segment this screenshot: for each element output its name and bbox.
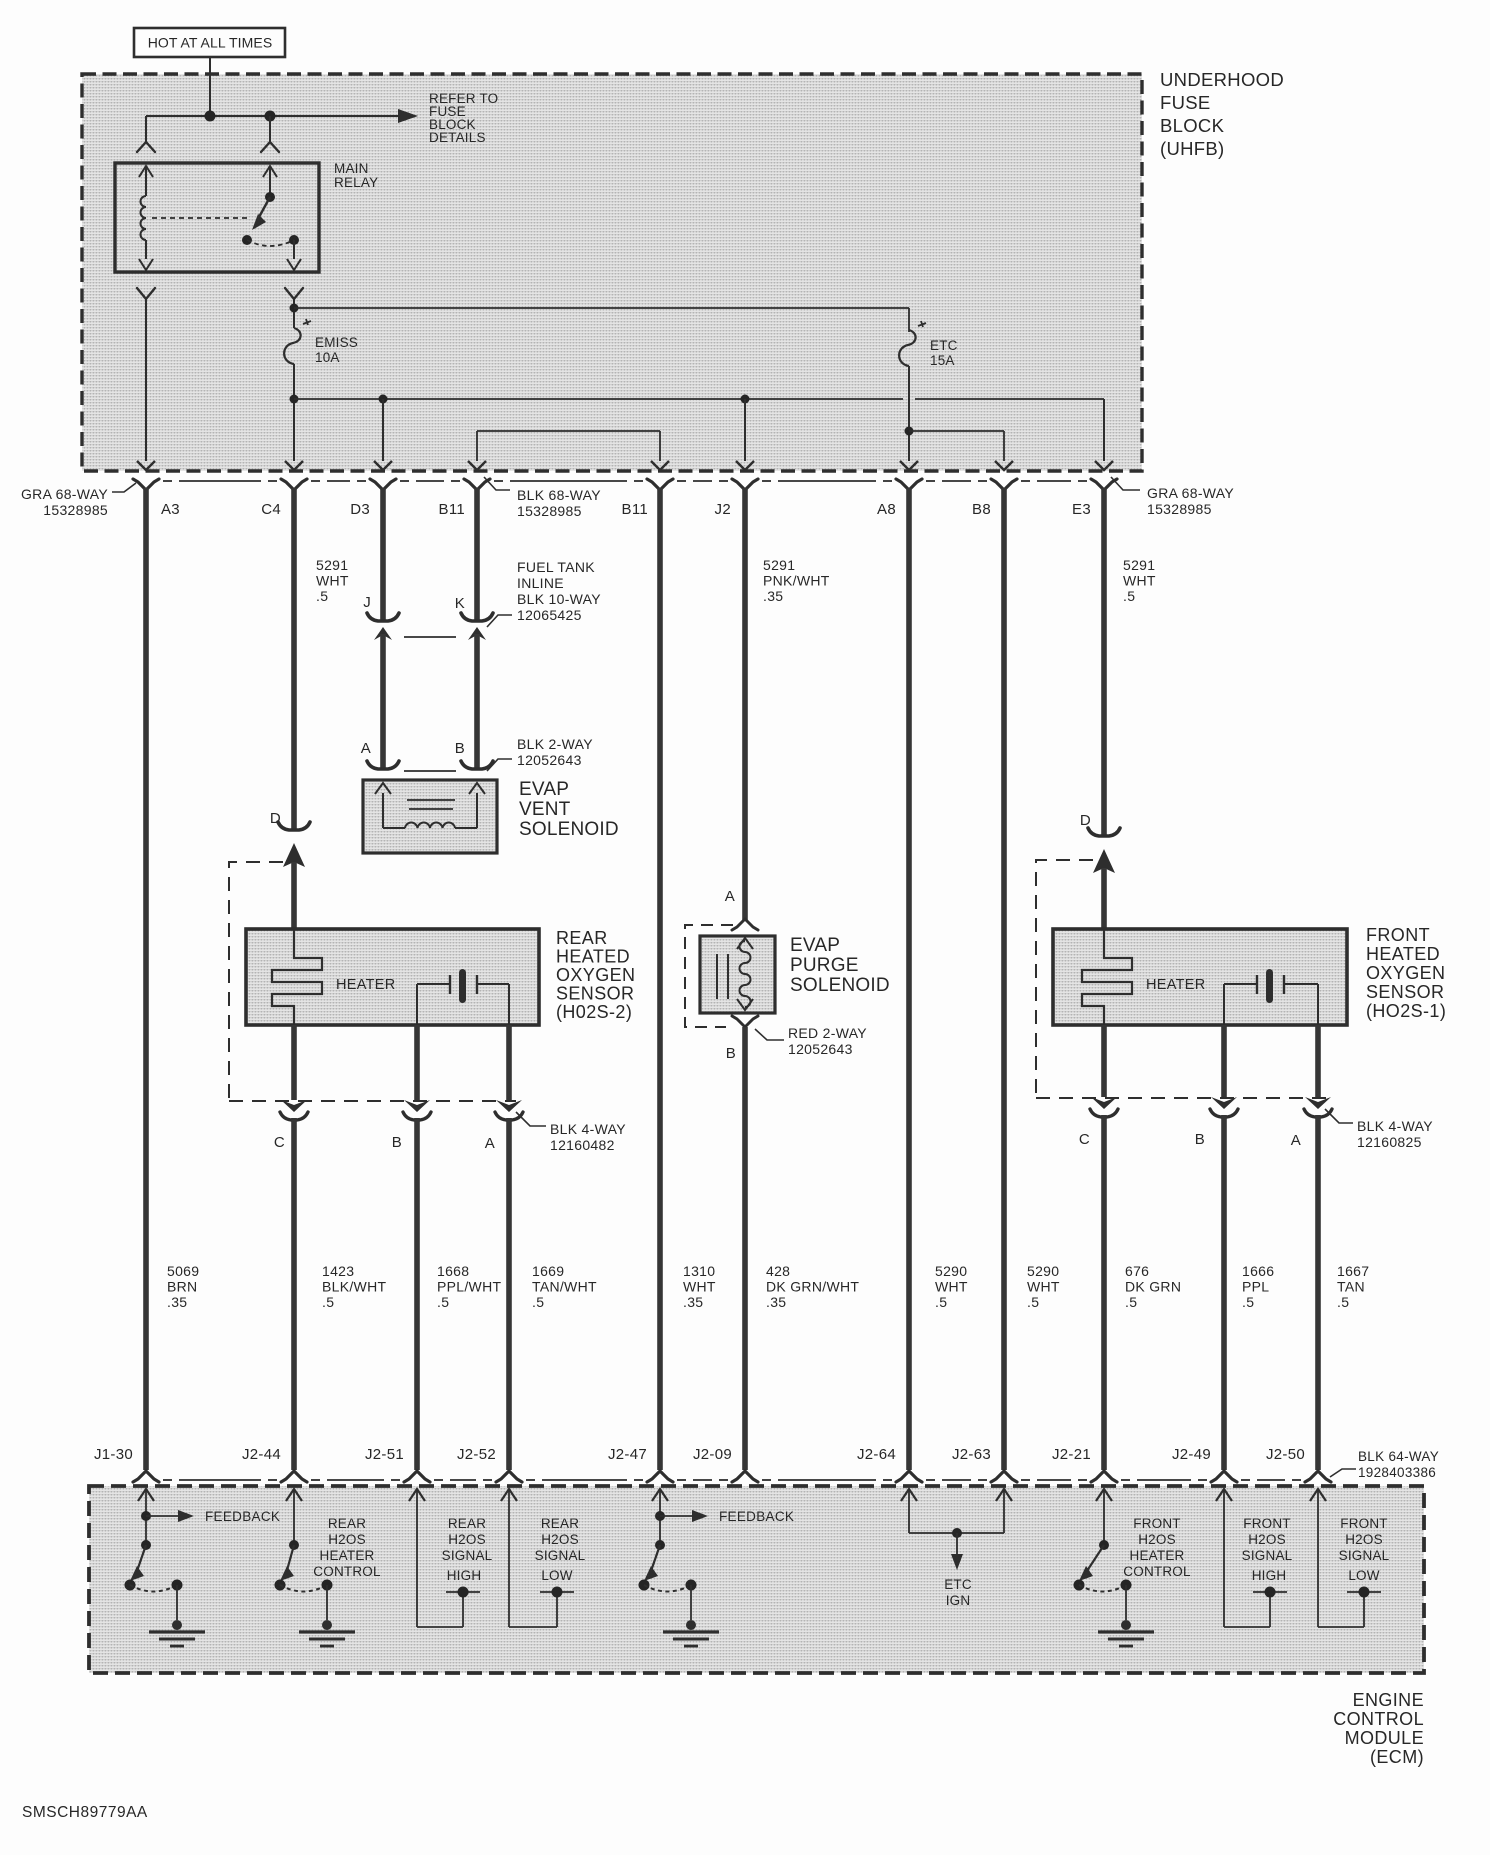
J2-51 rear signal high path: [409, 1489, 480, 1627]
wire front B to J2-49 (1666 PPL): [1221, 1115, 1227, 1470]
svg-text:HEATER: HEATER: [1130, 1548, 1185, 1563]
pin label B11 (right): [622, 501, 648, 518]
pin label K: [455, 595, 465, 612]
svg-text:.5: .5: [1123, 588, 1135, 604]
svg-text:12160482: 12160482: [550, 1137, 615, 1153]
connector fork A3 under UHFB: [133, 479, 159, 490]
svg-text:SIGNAL: SIGNAL: [1242, 1548, 1293, 1563]
svg-text:(H02S-2): (H02S-2): [556, 1002, 632, 1022]
front BLK 4-WAY connector face dashed line: [1036, 1097, 1326, 1099]
svg-text:PNK/WHT: PNK/WHT: [763, 573, 830, 589]
purge solenoid internals: [717, 938, 753, 1010]
wire label 1668 PPL/WHT: [437, 1263, 501, 1310]
connector fork J2-64 at ECM: [896, 1471, 922, 1482]
pin label A (purge): [725, 888, 735, 905]
svg-text:VENT: VENT: [519, 799, 571, 820]
svg-text:15A: 15A: [930, 353, 955, 368]
svg-text:OXYGEN: OXYGEN: [1366, 963, 1445, 983]
svg-text:SIGNAL: SIGNAL: [535, 1548, 586, 1563]
svg-text:5069: 5069: [167, 1263, 199, 1279]
svg-text:1423: 1423: [322, 1263, 354, 1279]
connector fork J2-50 at ECM: [1305, 1471, 1331, 1482]
EVAP vent solenoid box: [363, 780, 497, 853]
svg-text:BLK 10-WAY: BLK 10-WAY: [517, 591, 601, 607]
document code SMSCH89779AA: [22, 1804, 148, 1821]
svg-text:TAN/WHT: TAN/WHT: [532, 1279, 597, 1295]
pin label J2-51: [365, 1446, 404, 1463]
label EMISS 10A: [315, 335, 358, 365]
inline connector B (vent): [461, 761, 493, 769]
svg-text:B11: B11: [622, 501, 648, 518]
wire J to A: [380, 634, 386, 768]
svg-text:FRONT: FRONT: [1243, 1516, 1291, 1531]
svg-text:LOW: LOW: [1348, 1568, 1379, 1583]
arrow at E3 exit: [1095, 461, 1113, 470]
label BLK 2-WAY 12052643: [487, 736, 593, 771]
inline connector K: [461, 613, 493, 640]
wire drop to relay switch: [269, 116, 271, 142]
svg-text:SENSOR: SENSOR: [556, 984, 634, 1004]
svg-text:RED 2-WAY: RED 2-WAY: [788, 1025, 867, 1041]
svg-text:.5: .5: [1242, 1294, 1254, 1310]
J2-52 rear signal low path: [501, 1489, 574, 1627]
svg-text:WHT: WHT: [1123, 573, 1156, 589]
wire rear B exit: [414, 1025, 420, 1100]
svg-text:5290: 5290: [935, 1263, 967, 1279]
svg-text:BLOCK: BLOCK: [1160, 115, 1225, 136]
svg-text:WHT: WHT: [935, 1279, 968, 1295]
inline connector J: [367, 613, 399, 640]
svg-text:FRONT: FRONT: [1340, 1516, 1388, 1531]
label 5291 WHT .5 (E3): [1123, 557, 1156, 604]
pin label C4: [261, 501, 281, 518]
svg-text:B: B: [392, 1134, 402, 1151]
svg-text:FEEDBACK: FEEDBACK: [719, 1509, 794, 1524]
svg-text:B: B: [1195, 1131, 1205, 1148]
svg-text:PPL/WHT: PPL/WHT: [437, 1279, 501, 1295]
connector fork A8 under UHFB: [896, 479, 922, 490]
svg-text:SMSCH89779AA: SMSCH89779AA: [22, 1804, 148, 1821]
connector fork C4 under UHFB: [281, 479, 307, 490]
rear BLK 4-WAY connector face dashed line: [229, 1100, 516, 1102]
pin label J1-30: [94, 1446, 133, 1463]
svg-text:D3: D3: [350, 501, 370, 518]
svg-text:CONTROL: CONTROL: [1123, 1564, 1191, 1579]
wire E3 down to inline D front (5291 WHT): [1101, 488, 1107, 835]
front connector A: [1304, 1097, 1332, 1117]
svg-text:E3: E3: [1072, 501, 1091, 518]
inline connector D (front): [1088, 828, 1120, 836]
arrow at C4 exit: [285, 461, 303, 470]
label REAR H2OS SIGNAL HIGH: [442, 1516, 493, 1583]
pin label B (purge): [726, 1045, 736, 1062]
engine control module (ECM) box: [89, 1486, 1424, 1673]
svg-text:H2OS: H2OS: [448, 1532, 486, 1547]
wire label 5069 BRN: [167, 1263, 199, 1310]
svg-text:.5: .5: [1125, 1294, 1137, 1310]
label ENGINE CONTROL MODULE (ECM): [1333, 1690, 1424, 1767]
wire drop J2: [744, 399, 746, 461]
svg-text:BLK 4-WAY: BLK 4-WAY: [1357, 1118, 1433, 1134]
pin label B (vent): [455, 740, 465, 757]
svg-text:IGN: IGN: [946, 1593, 971, 1608]
svg-text:A3: A3: [161, 501, 180, 518]
front connector C: [1090, 1097, 1118, 1117]
wire purge B to J2-09 (428 DK GRN/WHT): [742, 1027, 748, 1470]
svg-text:K: K: [455, 595, 465, 612]
J1-30 feedback switch: [125, 1489, 206, 1646]
svg-text:J2-21: J2-21: [1052, 1446, 1091, 1463]
svg-text:1666: 1666: [1242, 1263, 1274, 1279]
svg-text:H2OS: H2OS: [541, 1532, 579, 1547]
pin label J2-52: [457, 1446, 496, 1463]
connector fork J2-47 at ECM: [647, 1471, 673, 1482]
svg-text:REAR: REAR: [541, 1516, 579, 1531]
svg-text:BLK 64-WAY: BLK 64-WAY: [1358, 1449, 1439, 1464]
svg-text:C: C: [274, 1134, 285, 1151]
wire front A to J2-50 (1667 TAN): [1315, 1115, 1321, 1470]
connector face dash J-K: [404, 636, 456, 638]
svg-text:5291: 5291: [763, 557, 795, 573]
svg-text:UNDERHOOD: UNDERHOOD: [1160, 69, 1284, 90]
svg-text:TAN: TAN: [1337, 1279, 1365, 1295]
pin label J: [363, 594, 371, 611]
svg-text:J1-30: J1-30: [94, 1446, 133, 1463]
svg-text:ETC: ETC: [930, 338, 958, 353]
svg-text:SIGNAL: SIGNAL: [442, 1548, 493, 1563]
pin label J2-47: [608, 1446, 647, 1463]
J2-64 / J2-63 ETC IGN feed: [901, 1489, 1012, 1570]
label 5291 WHT .5 (C4): [316, 557, 349, 604]
svg-text:H2OS: H2OS: [1345, 1532, 1383, 1547]
svg-text:PURGE: PURGE: [790, 955, 859, 976]
svg-text:INLINE: INLINE: [517, 575, 564, 591]
svg-text:B: B: [726, 1045, 736, 1062]
svg-text:HEATER: HEATER: [320, 1548, 375, 1563]
svg-text:D: D: [270, 810, 281, 827]
arrow at B8 exit: [995, 461, 1013, 470]
connector fork J2 under UHFB: [732, 479, 758, 490]
connector fork D3 under UHFB: [370, 479, 396, 490]
svg-text:HEATER: HEATER: [336, 977, 396, 993]
pin label A (vent): [361, 740, 371, 757]
label FRONT HEATED OXYGEN SENSOR (HO2S-1): [1366, 925, 1446, 1021]
wire K to B: [474, 634, 480, 768]
svg-text:12160825: 12160825: [1357, 1134, 1422, 1150]
connector fork B11 under UHFB: [647, 479, 673, 490]
svg-text:(ECM): (ECM): [1370, 1747, 1424, 1767]
svg-text:12052643: 12052643: [517, 752, 582, 768]
pin label A (front): [1291, 1132, 1301, 1149]
connector fork at purge B: [732, 1016, 758, 1027]
svg-text:.35: .35: [766, 1294, 786, 1310]
wire label 5290 WHT: [935, 1263, 968, 1310]
svg-text:FRONT: FRONT: [1366, 925, 1430, 945]
wire drop to relay coil: [145, 116, 147, 142]
svg-text:1928403386: 1928403386: [1358, 1465, 1436, 1480]
J2-44 heater control switch: [275, 1489, 356, 1646]
label BLK 68-WAY 15328985: [484, 477, 601, 519]
rear connector A: [495, 1100, 523, 1120]
label FUEL TANK INLINE BLK 10-WAY 12065425: [487, 559, 601, 627]
svg-text:HIGH: HIGH: [1252, 1568, 1287, 1583]
svg-text:10A: 10A: [315, 350, 340, 365]
wire C4 down to inline D (5291 WHT): [291, 488, 297, 829]
svg-text:CONTROL: CONTROL: [313, 1564, 381, 1579]
wire J2 down to purge solenoid A (5291 PNK/WHT): [742, 488, 748, 920]
arrow at J2 exit: [736, 461, 754, 470]
svg-text:WHT: WHT: [683, 1279, 716, 1295]
connector fork below relay switch: [285, 288, 303, 299]
label REAR H2OS HEATER CONTROL: [313, 1516, 381, 1579]
svg-text:.5: .5: [437, 1294, 449, 1310]
wire rear B to J2-51: [414, 1118, 420, 1470]
svg-text:FRONT: FRONT: [1133, 1516, 1181, 1531]
bus wire ETC to B8: [909, 431, 1004, 461]
svg-text:GRA 68-WAY: GRA 68-WAY: [1147, 485, 1234, 501]
svg-text:B: B: [455, 740, 465, 757]
svg-text:.35: .35: [763, 588, 783, 604]
label FEEDBACK (right): [719, 1509, 794, 1524]
wire B11 down to inline K: [474, 488, 480, 620]
pin label D (front): [1080, 812, 1091, 829]
svg-text:WHT: WHT: [316, 573, 349, 589]
label ETC IGN: [944, 1577, 972, 1608]
svg-text:428: 428: [766, 1263, 790, 1279]
connector fork below relay coil: [137, 288, 155, 299]
svg-text:J2-50: J2-50: [1266, 1446, 1305, 1463]
J2-09 entry arrow: [0, 0, 1, 1]
pin label B8: [972, 501, 991, 518]
rear connector C: [280, 1100, 308, 1120]
pin label D (rear): [270, 810, 281, 827]
wire from HOT AT ALL TIMES into UHFB: [209, 57, 211, 116]
relay coil-switch dashed link: [152, 217, 250, 219]
svg-text:A: A: [1291, 1132, 1301, 1149]
connector fork E3 under UHFB: [1091, 479, 1117, 490]
svg-text:.35: .35: [683, 1294, 703, 1310]
front sensor heater element: [1082, 929, 1206, 1025]
label REFER TO FUSE BLOCK DETAILS: [429, 91, 498, 145]
svg-text:J2-64: J2-64: [857, 1446, 896, 1463]
relay switch: [242, 166, 301, 270]
wire front C exit: [1101, 1025, 1107, 1097]
pin label J2-64: [857, 1446, 896, 1463]
svg-text:REAR: REAR: [448, 1516, 486, 1531]
rear sensor heater element: [272, 929, 396, 1025]
svg-text:DK GRN: DK GRN: [1125, 1279, 1181, 1295]
svg-text:.5: .5: [532, 1294, 544, 1310]
wire A3 feed (relay coil to A3): [145, 299, 147, 461]
svg-text:1667: 1667: [1337, 1263, 1369, 1279]
connector fork at relay coil input: [137, 142, 155, 152]
EVAP vent solenoid internals: [375, 783, 485, 828]
bus bracket B11 to B11: [477, 431, 660, 461]
connector fork J2-21 at ECM: [1091, 1471, 1117, 1482]
svg-text:HEATED: HEATED: [1366, 944, 1440, 964]
svg-text:C4: C4: [261, 501, 281, 518]
shield dashed box (front sensor): [1036, 860, 1093, 1098]
bus wire to fuse block details: [146, 109, 418, 123]
svg-text:HOT AT ALL TIMES: HOT AT ALL TIMES: [148, 35, 273, 51]
wire label 1669 TAN/WHT: [532, 1263, 597, 1310]
svg-text:J2-47: J2-47: [608, 1446, 647, 1463]
svg-text:BLK/WHT: BLK/WHT: [322, 1279, 386, 1295]
wire drop E3: [1103, 399, 1105, 461]
label FRONT H2OS SIGNAL LOW: [1339, 1516, 1390, 1583]
svg-text:REAR: REAR: [556, 928, 608, 948]
label ETC 15A: [930, 338, 958, 368]
fuse EMISS 10A: [284, 319, 311, 364]
svg-text:DK GRN/WHT: DK GRN/WHT: [766, 1279, 859, 1295]
svg-text:MODULE: MODULE: [1345, 1728, 1424, 1748]
svg-text:J2-52: J2-52: [457, 1446, 496, 1463]
svg-text:FUSE: FUSE: [1160, 92, 1211, 113]
pin label C (rear): [274, 1134, 285, 1151]
svg-text:ETC: ETC: [944, 1577, 972, 1592]
svg-text:LOW: LOW: [541, 1568, 572, 1583]
svg-text:H2OS: H2OS: [1248, 1532, 1286, 1547]
svg-text:C: C: [1079, 1131, 1090, 1148]
pin label J2: [715, 501, 731, 518]
connector fork B8 under UHFB: [991, 479, 1017, 490]
connector fork J2-44 at ECM: [281, 1471, 307, 1482]
wire B11 (right) to J2-47 (1310 WHT): [657, 488, 663, 1470]
svg-text:CONTROL: CONTROL: [1333, 1709, 1424, 1729]
wire ETC output node: [905, 366, 914, 461]
wire D3 down to inline J: [380, 488, 386, 620]
wire label 1423 BLK/WHT: [322, 1263, 386, 1310]
connector fork B11 under UHFB: [464, 479, 490, 490]
svg-text:1668: 1668: [437, 1263, 469, 1279]
svg-text:HIGH: HIGH: [447, 1568, 482, 1583]
svg-text:B11: B11: [439, 501, 465, 518]
connector fork at purge A: [732, 919, 758, 930]
pin label J2-49: [1172, 1446, 1211, 1463]
connector fork J2-49 at ECM: [1211, 1471, 1237, 1482]
svg-text:EVAP: EVAP: [790, 935, 840, 956]
svg-text:J2: J2: [715, 501, 731, 518]
svg-text:H2OS: H2OS: [1138, 1532, 1176, 1547]
pin label J2-21: [1052, 1446, 1091, 1463]
connector face dashes under UHFB: [163, 480, 1087, 482]
svg-text:5291: 5291: [316, 557, 348, 573]
svg-text:(HO2S-1): (HO2S-1): [1366, 1001, 1446, 1021]
wire rear A exit: [506, 1025, 512, 1100]
label FRONT H2OS HEATER CONTROL: [1123, 1516, 1191, 1579]
entry arrow into rear sensor: [283, 843, 305, 929]
pin label A3: [161, 501, 180, 518]
pin label J2-63: [952, 1446, 991, 1463]
pin label C (front): [1079, 1131, 1090, 1148]
wire A3 to J1-30 (5069 BRN): [143, 488, 149, 1470]
wire front A exit: [1315, 1025, 1321, 1097]
svg-text:.5: .5: [935, 1294, 947, 1310]
svg-text:J2-63: J2-63: [952, 1446, 991, 1463]
arrow at B11 exit (right): [651, 461, 669, 470]
wire front C to J2-21 (676 DK GRN): [1101, 1115, 1107, 1470]
svg-text:J2-09: J2-09: [693, 1446, 732, 1463]
wire rear C to J2-44: [291, 1118, 297, 1470]
J2-21 heater control switch: [1074, 1489, 1155, 1646]
svg-text:5291: 5291: [1123, 557, 1155, 573]
svg-text:.5: .5: [316, 588, 328, 604]
svg-text:15328985: 15328985: [43, 502, 108, 518]
svg-text:SIGNAL: SIGNAL: [1339, 1548, 1390, 1563]
pin label B11 (left): [439, 501, 465, 518]
pin label J2-44: [242, 1446, 281, 1463]
svg-text:B8: B8: [972, 501, 991, 518]
J2-50 front signal low path: [1310, 1489, 1381, 1627]
wire front B exit: [1221, 1025, 1227, 1097]
J2-49 front signal high path: [1216, 1489, 1287, 1627]
svg-text:.35: .35: [167, 1294, 187, 1310]
front connector B: [1210, 1097, 1238, 1117]
label GRA 68-WAY 15328985 (right): [1111, 477, 1234, 517]
label BLK 64-WAY 1928403386: [1330, 1449, 1439, 1480]
svg-text:BLK 4-WAY: BLK 4-WAY: [550, 1121, 626, 1137]
svg-text:(UHFB): (UHFB): [1160, 138, 1224, 159]
svg-text:676: 676: [1125, 1263, 1149, 1279]
svg-text:BLK 68-WAY: BLK 68-WAY: [517, 487, 601, 503]
purge dashed bracket: [685, 925, 733, 1027]
svg-text:REAR: REAR: [328, 1516, 366, 1531]
pin label B (rear): [392, 1134, 402, 1151]
wire relay switch output node: [290, 299, 299, 328]
front heated oxygen sensor box: [1053, 929, 1347, 1025]
svg-text:1669: 1669: [532, 1263, 564, 1279]
svg-text:15328985: 15328985: [1147, 501, 1212, 517]
svg-text:SOLENOID: SOLENOID: [790, 975, 890, 996]
rear sensor cell: [417, 969, 509, 1025]
svg-text:MAIN: MAIN: [334, 161, 369, 176]
pin label E3: [1072, 501, 1091, 518]
pin label A (rear): [485, 1135, 495, 1152]
arrow at A3 exit: [137, 461, 155, 470]
label REAR HEATED OXYGEN SENSOR (H02S-2): [556, 928, 635, 1022]
bus wire to ETC fuse: [294, 307, 909, 309]
svg-text:OXYGEN: OXYGEN: [556, 965, 635, 985]
wire rear A to J2-52: [506, 1118, 512, 1470]
fuse ETC 15A: [899, 308, 926, 366]
svg-text:SENSOR: SENSOR: [1366, 982, 1444, 1002]
svg-text:J2-44: J2-44: [242, 1446, 281, 1463]
svg-text:1310: 1310: [683, 1263, 715, 1279]
label FRONT H2OS SIGNAL HIGH: [1242, 1516, 1293, 1583]
pin label D3: [350, 501, 370, 518]
connector fork at relay switch input: [261, 142, 279, 152]
pin label J2-50: [1266, 1446, 1305, 1463]
svg-text:EVAP: EVAP: [519, 779, 569, 800]
svg-text:15328985: 15328985: [517, 503, 582, 519]
svg-text:BLK 2-WAY: BLK 2-WAY: [517, 736, 593, 752]
svg-text:J2-49: J2-49: [1172, 1446, 1211, 1463]
label GRA 68-WAY 15328985 (left): [21, 483, 136, 518]
label MAIN RELAY: [334, 161, 378, 190]
label FEEDBACK (left): [205, 1509, 280, 1524]
svg-text:D: D: [1080, 812, 1091, 829]
wire EMISS output node: [290, 364, 299, 461]
wire label 5290 WHT: [1027, 1263, 1060, 1310]
svg-text:SOLENOID: SOLENOID: [519, 819, 619, 840]
inline connector D (rear): [278, 822, 310, 830]
svg-text:A8: A8: [877, 501, 896, 518]
connector face dashes at ECM: [163, 1479, 1301, 1481]
svg-text:.5: .5: [1027, 1294, 1039, 1310]
main relay box: [115, 163, 319, 272]
label UNDERHOOD FUSE BLOCK (UHFB): [1160, 69, 1284, 159]
pin label A8: [877, 501, 896, 518]
